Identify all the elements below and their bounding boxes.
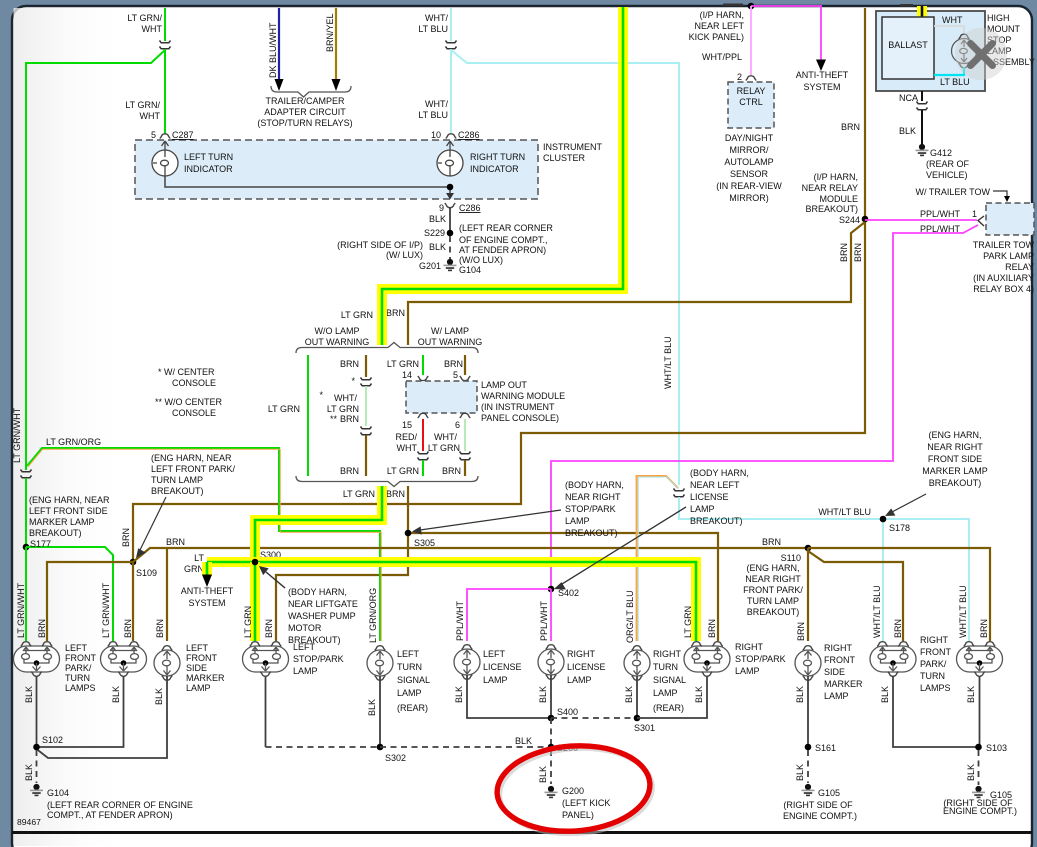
svg-text:LICENSE: LICENSE	[690, 492, 729, 502]
arrow anti-theft top	[816, 60, 826, 72]
arrow to S300 redrawn over highlight	[266, 572, 285, 588]
svg-text:MARKER: MARKER	[824, 679, 863, 689]
svg-text:ORG/LT BLU: ORG/LT BLU	[625, 590, 635, 643]
svg-text:(IN AUXILIARY: (IN AUXILIARY	[973, 273, 1034, 283]
svg-text:BRN: BRN	[841, 122, 860, 132]
svg-text:RIGHT TURN: RIGHT TURN	[470, 152, 525, 162]
connector pin 2 relay ctrl	[746, 76, 756, 81]
svg-text:PPL/WHT: PPL/WHT	[455, 600, 465, 641]
svg-text:LAMP: LAMP	[690, 504, 715, 514]
splice S402	[548, 586, 555, 593]
svg-text:LT GRN: LT GRN	[268, 404, 300, 414]
instrument cluster box	[135, 140, 538, 199]
svg-text:FRONT PARK/: FRONT PARK/	[743, 585, 803, 595]
svg-text:* W/ CENTER: * W/ CENTER	[158, 367, 215, 377]
svg-text:RELAY BOX 4): RELAY BOX 4)	[973, 284, 1034, 294]
svg-text:BREAKOUT): BREAKOUT)	[565, 528, 618, 538]
svg-text:WHT: WHT	[140, 111, 161, 121]
svg-text:NEAR RIGHT: NEAR RIGHT	[565, 492, 621, 502]
svg-text:TURN LAMP: TURN LAMP	[747, 596, 799, 606]
svg-text:BRN: BRN	[37, 619, 47, 638]
wire BLK right license to S400	[550, 675, 552, 718]
brace trailer/camper	[271, 86, 351, 97]
svg-text:KICK PANEL): KICK PANEL)	[689, 32, 744, 42]
svg-text:(BODY HARN,: (BODY HARN,	[690, 468, 749, 478]
wire BRN S305 to left stop/park	[276, 533, 408, 641]
svg-text:G105: G105	[818, 788, 840, 798]
svg-text:BLK: BLK	[24, 764, 34, 781]
splice S102	[33, 744, 40, 751]
svg-text:PPL/WHT: PPL/WHT	[539, 600, 549, 641]
wire LT GRN/ORG	[27, 448, 380, 641]
subtle page-left shading	[0, 0, 1, 1]
left stop/park lamp	[243, 642, 289, 677]
svg-text:BRN: BRN	[121, 528, 131, 547]
svg-text:WHT/: WHT/	[434, 432, 457, 442]
wire LT GRN w/o section	[307, 355, 309, 476]
breakout marker	[361, 427, 372, 435]
svg-text:TURN: TURN	[920, 671, 945, 681]
svg-text:W/ TRAILER TOW: W/ TRAILER TOW	[915, 187, 990, 197]
wire BRN main vertical	[133, 8, 865, 562]
splice S109	[130, 559, 137, 566]
arrow BRN/YEL	[332, 79, 341, 91]
svg-text:STOP/PARK: STOP/PARK	[293, 654, 344, 664]
red highlight ellipse shadow	[497, 743, 656, 838]
svg-text:PANEL CONSOLE): PANEL CONSOLE)	[481, 413, 559, 423]
svg-text:FRONT: FRONT	[824, 655, 855, 665]
left front park/turn lamp B	[101, 642, 147, 677]
svg-text:S402: S402	[558, 588, 579, 598]
wire BLK left stop/park down	[265, 676, 267, 747]
svg-text:LAMP OUT: LAMP OUT	[481, 380, 527, 390]
connector C286 bottom	[445, 203, 455, 208]
svg-text:FRONT SIDE: FRONT SIDE	[928, 454, 982, 464]
wire LT GRN/WHT vertical to C287	[164, 8, 166, 41]
svg-text:C286: C286	[458, 130, 480, 140]
svg-text:WARNING MODULE: WARNING MODULE	[481, 391, 565, 401]
wire LT BLU	[934, 67, 964, 75]
svg-text:CLUSTER: CLUSTER	[543, 153, 586, 163]
svg-text:BLK: BLK	[538, 686, 548, 703]
svg-text:MARKER LAMP: MARKER LAMP	[922, 466, 988, 476]
svg-text:BLK: BLK	[429, 242, 446, 252]
svg-text:S244: S244	[839, 215, 860, 225]
splice S177	[23, 544, 30, 551]
wire LT GRN/WHT to lamp1	[25, 547, 27, 641]
svg-text:W/O LAMP: W/O LAMP	[314, 326, 359, 336]
svg-text:**: **	[330, 414, 338, 424]
wire BRN S109 to lamp2 right	[132, 562, 134, 641]
svg-text:LICENSE: LICENSE	[483, 662, 522, 672]
svg-text:LAMP: LAMP	[293, 666, 318, 676]
svg-text:BRN: BRN	[264, 619, 274, 638]
svg-text:BLK: BLK	[454, 686, 464, 703]
wire WHT	[934, 26, 964, 33]
svg-text:MIRROR/: MIRROR/	[730, 145, 769, 155]
svg-text:BRN: BRN	[979, 619, 989, 638]
junction dot inside cluster	[447, 184, 454, 191]
breakout marker on left LT GRN/WHT	[21, 470, 32, 478]
svg-text:LT GRN/ORG: LT GRN/ORG	[368, 588, 378, 643]
wire BRN w/o upper	[365, 355, 367, 377]
cursor halo	[955, 28, 1007, 80]
svg-text:BRN: BRN	[839, 243, 849, 262]
svg-text:LAMP: LAMP	[565, 516, 590, 526]
wire BRN S110 down to side marker	[807, 548, 809, 641]
svg-text:FRONT: FRONT	[186, 653, 217, 663]
wire BLK dashed S200 to G200	[550, 750, 552, 784]
svg-text:NEAR RIGHT: NEAR RIGHT	[927, 442, 983, 452]
svg-text:(ENG HARN, NEAR: (ENG HARN, NEAR	[29, 495, 110, 505]
svg-text:15: 15	[402, 420, 412, 430]
svg-text:WHT: WHT	[397, 443, 418, 453]
svg-text:ENGINE COMPT.): ENGINE COMPT.)	[783, 811, 857, 821]
pin 6 connector	[460, 413, 470, 418]
svg-text:BRN: BRN	[893, 619, 903, 638]
svg-text:ENGINE COMPT.): ENGINE COMPT.)	[943, 806, 1017, 816]
svg-text:W/ LAMP: W/ LAMP	[431, 326, 469, 336]
splice S302	[377, 744, 384, 751]
svg-text:TRAILER/CAMPER: TRAILER/CAMPER	[265, 96, 345, 106]
breakout marker	[361, 378, 372, 386]
right license lamp	[538, 645, 564, 680]
arrow to S178	[892, 494, 926, 512]
arrow anti-theft left	[202, 575, 212, 588]
svg-text:G104: G104	[459, 265, 481, 275]
left license lamp	[454, 645, 480, 680]
arrow to S300	[266, 572, 285, 588]
svg-text:ANTI-THEFT: ANTI-THEFT	[796, 70, 849, 80]
svg-text:BREAKOUT): BREAKOUT)	[929, 478, 982, 488]
svg-text:LT GRN: LT GRN	[387, 466, 419, 476]
svg-text:LT GRN/WHT: LT GRN/WHT	[16, 582, 26, 638]
svg-text:LT BLU: LT BLU	[418, 24, 448, 34]
svg-text:PPL/WHT: PPL/WHT	[920, 224, 961, 234]
wire BLK right pair2 to S103	[979, 676, 981, 747]
svg-text:(IN INSTRUMENT: (IN INSTRUMENT	[481, 402, 555, 412]
svg-text:OF ENGINE COMPT.,: OF ENGINE COMPT.,	[459, 235, 548, 245]
wire BLK lamp1 to S102	[36, 676, 38, 747]
svg-text:PARK/: PARK/	[920, 659, 947, 669]
svg-text:PANEL): PANEL)	[562, 810, 594, 820]
breakout marker	[460, 452, 471, 460]
brace bottom	[296, 476, 478, 487]
svg-text:LAMP: LAMP	[397, 688, 422, 698]
svg-text:RIGHT: RIGHT	[824, 643, 853, 653]
svg-text:S400: S400	[557, 707, 578, 717]
svg-text:LT GRN/ORG: LT GRN/ORG	[46, 437, 101, 447]
svg-text:INSTRUMENT: INSTRUMENT	[543, 142, 602, 152]
svg-text:(W/O LUX): (W/O LUX)	[459, 255, 503, 265]
svg-text:DK BLU/WHT: DK BLU/WHT	[268, 22, 278, 78]
svg-text:BRN: BRN	[853, 243, 863, 262]
svg-text:LT GRN: LT GRN	[343, 489, 375, 499]
svg-text:WHT: WHT	[142, 24, 163, 34]
svg-text:BRN: BRN	[386, 489, 405, 499]
wire WHT/LT BLU long branch right	[451, 50, 679, 485]
svg-text:BREAKOUT): BREAKOUT)	[151, 486, 204, 496]
arrow to S402 redrawn over highlight	[562, 507, 686, 584]
wire LT GRN highlighted horizontal through S300	[207, 562, 696, 641]
svg-text:S177: S177	[30, 539, 51, 549]
svg-text:LT: LT	[194, 553, 204, 563]
splice S244	[862, 216, 869, 223]
wire BLK dashed to G105 right	[978, 750, 980, 785]
wire BLK dashed S400 to S301	[551, 717, 637, 719]
svg-text:STOP/PARK: STOP/PARK	[565, 504, 616, 514]
arrow to S109	[140, 497, 166, 550]
right front side marker lamp	[795, 646, 821, 681]
wire WHT/LT GRN from pin 6	[464, 419, 466, 451]
svg-text:LAMP: LAMP	[186, 683, 211, 693]
wire BLK right turn signal to S301	[636, 676, 638, 718]
svg-text:(REAR): (REAR)	[653, 703, 684, 713]
relay ctrl box	[728, 82, 774, 128]
ground G105 right	[972, 786, 985, 798]
svg-text:BLK: BLK	[966, 764, 976, 781]
svg-text:TURN: TURN	[653, 662, 678, 672]
svg-text:WHT/LT BLU: WHT/LT BLU	[663, 336, 673, 389]
highlighted feed wire into ballast	[917, 6, 927, 17]
breakout marker	[418, 452, 429, 460]
svg-text:LAMP: LAMP	[483, 675, 508, 685]
svg-text:LT GRN: LT GRN	[327, 404, 359, 414]
svg-text:** W/O CENTER: ** W/O CENTER	[155, 397, 223, 407]
splice S400	[548, 715, 555, 722]
svg-text:LAMPS: LAMPS	[65, 683, 96, 693]
wire BRN branch to side marker	[166, 548, 168, 641]
svg-text:(I/P HARN,: (I/P HARN,	[814, 172, 858, 182]
svg-text:S305: S305	[414, 538, 435, 548]
svg-text:WHT/LT BLU: WHT/LT BLU	[818, 507, 871, 517]
svg-text:C287: C287	[172, 130, 194, 140]
svg-text:FRONT: FRONT	[920, 647, 951, 657]
svg-text:BLK: BLK	[515, 736, 532, 746]
svg-text:9: 9	[439, 203, 444, 213]
wire WHT/PPL to relay ctrl	[750, 6, 752, 75]
splice S301	[634, 715, 641, 722]
wire BRN w/o lower	[365, 435, 367, 476]
svg-text:(LEFT REAR CORNER: (LEFT REAR CORNER	[459, 223, 553, 233]
svg-text:RIGHT: RIGHT	[735, 642, 764, 652]
svg-text:ADAPTER CIRCUIT: ADAPTER CIRCUIT	[264, 107, 346, 117]
high mount bulb	[952, 34, 977, 68]
ground G104	[30, 784, 43, 796]
wire WHT/LT BLU vertical top	[450, 8, 452, 41]
svg-text:MARKER LAMP: MARKER LAMP	[29, 517, 95, 527]
svg-text:(BODY HARN,: (BODY HARN,	[288, 587, 347, 597]
svg-text:LAMPS: LAMPS	[920, 683, 951, 693]
svg-text:TURN: TURN	[65, 673, 90, 683]
svg-text:PARK/: PARK/	[65, 663, 92, 673]
svg-text:RELAY: RELAY	[1005, 262, 1034, 272]
red highlight ellipse	[494, 741, 653, 836]
svg-text:NEAR LEFT: NEAR LEFT	[690, 480, 740, 490]
arrow to S305	[420, 510, 561, 530]
svg-text:WHT/: WHT/	[425, 99, 448, 109]
svg-text:RIGHT: RIGHT	[653, 649, 682, 659]
svg-text:S102: S102	[42, 735, 63, 745]
wire BRN S110 to pair1 right	[808, 551, 903, 641]
wire PPL/WHT to right license	[550, 589, 552, 641]
svg-text:BLK: BLK	[367, 699, 377, 716]
wire BRN to pin 5	[464, 355, 466, 375]
svg-text:WASHER PUMP: WASHER PUMP	[288, 611, 356, 621]
svg-text:WHT/LT BLU: WHT/LT BLU	[958, 585, 968, 638]
wire BLK side marker to S102	[37, 676, 168, 758]
wire WHT/LT BLU S178 down	[882, 519, 884, 641]
svg-text:RIGHT: RIGHT	[920, 635, 949, 645]
cursor X mark	[971, 44, 993, 66]
right front park/turn lamp B	[957, 642, 1003, 677]
svg-text:(LEFT REAR CORNER OF ENGINE: (LEFT REAR CORNER OF ENGINE	[47, 800, 193, 810]
svg-text:CONSOLE: CONSOLE	[172, 408, 216, 418]
svg-text:LT GRN/: LT GRN/	[125, 100, 160, 110]
svg-text:(IN REAR-VIEW: (IN REAR-VIEW	[716, 181, 782, 191]
svg-text:LT GRN/WHT: LT GRN/WHT	[12, 407, 22, 463]
wire BRN S109 to S110	[133, 548, 808, 562]
pin 5 connector	[460, 376, 470, 381]
svg-text:(LEFT KICK: (LEFT KICK	[562, 798, 610, 808]
svg-text:BLK: BLK	[966, 686, 976, 703]
left front park/turn lamp A	[14, 642, 60, 677]
left turn signal lamp rear	[367, 646, 393, 681]
svg-text:FRONT: FRONT	[65, 653, 96, 663]
svg-text:BRN: BRN	[707, 619, 717, 638]
svg-text:6: 6	[455, 420, 460, 430]
svg-text:BREAKOUT): BREAKOUT)	[805, 204, 858, 214]
svg-text:LEFT: LEFT	[186, 643, 209, 653]
svg-text:LT GRN: LT GRN	[387, 359, 419, 369]
svg-text:S161: S161	[815, 743, 836, 753]
svg-text:BRN: BRN	[444, 359, 463, 369]
wire BLK dashed S400 down to S200	[550, 718, 552, 747]
svg-text:BLK: BLK	[24, 686, 34, 703]
wire ORG/LT BLU	[637, 476, 678, 641]
ground G200	[545, 786, 558, 798]
svg-text:NEAR LIFTGATE: NEAR LIFTGATE	[288, 599, 358, 609]
wire BLK right side marker to S161	[807, 676, 809, 747]
svg-text:LT BLU: LT BLU	[418, 110, 448, 120]
wire BRN below marker	[464, 460, 466, 476]
clipped connector text top	[723, 4, 743, 7]
wire LT GRN highlighted down to left stop/park	[250, 562, 260, 641]
splice S229	[447, 230, 454, 237]
wire BRN below brace to S305	[407, 486, 409, 533]
svg-text:S302: S302	[385, 753, 406, 763]
svg-text:AUTOLAMP: AUTOLAMP	[724, 157, 773, 167]
svg-text:NCA: NCA	[899, 93, 918, 103]
svg-text:5: 5	[453, 370, 458, 380]
wire PPL to anti-theft	[751, 6, 821, 61]
splice S300 on top of highlight	[252, 559, 259, 566]
wire BRN S110 to right pair2	[808, 548, 990, 641]
assembly outer box	[876, 11, 985, 91]
arrow down out of cluster	[446, 193, 454, 200]
left turn indicator bulb U-L	[152, 141, 178, 176]
connector pin 1	[978, 216, 984, 226]
svg-text:INDICATOR: INDICATOR	[470, 164, 519, 174]
wire BRN/YEL	[335, 8, 337, 80]
svg-text:BREAKOUT): BREAKOUT)	[29, 528, 82, 538]
svg-text:AT FENDER APRON): AT FENDER APRON)	[459, 245, 546, 255]
svg-text:WHT: WHT	[942, 15, 963, 25]
svg-text:G201: G201	[419, 261, 441, 271]
svg-text:RED/: RED/	[395, 432, 417, 442]
svg-text:SIGNAL: SIGNAL	[653, 675, 686, 685]
svg-text:(BODY HARN,: (BODY HARN,	[565, 480, 624, 490]
ballast box	[882, 17, 934, 79]
svg-text:S301: S301	[634, 723, 655, 733]
svg-text:COMPT., AT FENDER APRON): COMPT., AT FENDER APRON)	[47, 810, 173, 820]
wire DK BLU/WHT	[278, 8, 280, 80]
svg-text:5: 5	[151, 130, 156, 140]
wire BLK dashed S302 to S200	[380, 746, 551, 748]
svg-text:(RIGHT SIDE OF I/P): (RIGHT SIDE OF I/P)	[337, 240, 423, 250]
svg-text:1: 1	[972, 209, 977, 219]
svg-text:BLK: BLK	[694, 686, 704, 703]
wire NCA below assembly	[921, 91, 923, 101]
svg-text:BRN: BRN	[340, 359, 359, 369]
svg-text:LT GRN: LT GRN	[243, 606, 253, 638]
svg-text:MARKER: MARKER	[186, 673, 225, 683]
wire BLK left turn signal to S302	[379, 676, 381, 747]
svg-text:G200: G200	[562, 786, 584, 796]
wire LT GRN highlighted anti-theft stub	[202, 562, 212, 576]
wire LT GRN/WHT S177 branch	[26, 547, 113, 641]
connector C286 top	[446, 134, 456, 139]
wire PPL/WHT from S244 to relay	[865, 219, 977, 221]
pin 15 connector	[418, 413, 428, 418]
svg-text:WHT/: WHT/	[425, 13, 448, 23]
svg-text:BREAKOUT): BREAKOUT)	[747, 607, 800, 617]
svg-text:VEHICLE): VEHICLE)	[926, 170, 968, 180]
svg-text:SIDE: SIDE	[824, 667, 845, 677]
svg-text:NEAR LEFT: NEAR LEFT	[694, 21, 744, 31]
svg-text:S109: S109	[136, 568, 157, 578]
svg-text:BLK: BLK	[429, 214, 446, 224]
svg-text:LT GRN: LT GRN	[428, 443, 460, 453]
wire RED/WHT from pin 15	[422, 419, 424, 451]
svg-text:LEFT FRONT PARK/: LEFT FRONT PARK/	[151, 464, 236, 474]
svg-text:LEFT: LEFT	[293, 642, 316, 652]
svg-text:OUT WARNING: OUT WARNING	[418, 337, 483, 347]
svg-text:BLK: BLK	[154, 688, 164, 705]
svg-text:(RIGHT SIDE OF: (RIGHT SIDE OF	[783, 800, 853, 810]
arrow DK BLU/WHT	[275, 79, 284, 91]
svg-text:SIDE: SIDE	[186, 663, 207, 673]
svg-text:89467: 89467	[17, 817, 41, 827]
svg-text:CONSOLE: CONSOLE	[172, 378, 216, 388]
wire BLK dashed to G201	[449, 236, 451, 259]
svg-text:*: *	[351, 376, 355, 386]
ground G105 left	[802, 784, 815, 796]
svg-text:ANTI-THEFT: ANTI-THEFT	[181, 586, 234, 596]
svg-text:TURN LAMP: TURN LAMP	[151, 475, 203, 485]
svg-text:RELAY: RELAY	[737, 86, 766, 96]
svg-text:LT GRN/WHT: LT GRN/WHT	[101, 582, 111, 638]
page bottom border	[12, 831, 1032, 834]
ground G201/G104	[444, 259, 457, 271]
junction dot top	[748, 3, 755, 10]
svg-text:*: *	[319, 390, 323, 400]
wire LT GRN to pin 14	[422, 355, 424, 375]
svg-text:(REAR): (REAR)	[397, 703, 428, 713]
wire BLK left license down	[467, 675, 551, 718]
wire LT GRN below marker	[422, 460, 424, 476]
breakout marker license branch	[674, 489, 685, 497]
